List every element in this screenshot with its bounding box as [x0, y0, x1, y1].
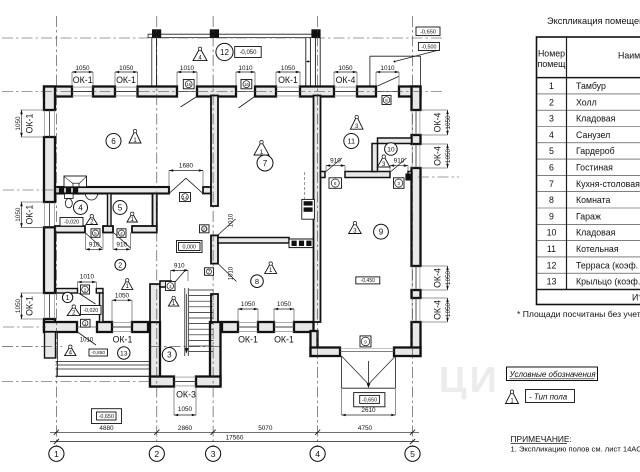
- svg-text:10: 10: [202, 227, 207, 232]
- svg-text:4: 4: [78, 203, 83, 212]
- svg-text:Кладовая: Кладовая: [576, 114, 616, 124]
- svg-text:1010: 1010: [229, 266, 235, 280]
- svg-text:1050: 1050: [338, 65, 353, 72]
- svg-text:2: 2: [154, 449, 159, 459]
- svg-text:Комната: Комната: [576, 195, 611, 205]
- svg-text:Итого: Итого: [632, 293, 640, 303]
- svg-text:16: 16: [244, 82, 249, 87]
- svg-text:13: 13: [547, 277, 557, 287]
- svg-text:Наименование: Наименование: [618, 51, 640, 61]
- svg-text:-0,020: -0,020: [64, 220, 79, 226]
- svg-text:- Тип пола: - Тип пола: [529, 392, 568, 401]
- svg-text:ОК-1: ОК-1: [25, 205, 35, 225]
- svg-text:ОК-4: ОК-4: [433, 113, 443, 133]
- svg-text:-0,450: -0,450: [361, 278, 375, 284]
- svg-text:8: 8: [549, 195, 554, 205]
- svg-text:ОК-4: ОК-4: [433, 146, 443, 166]
- svg-text:2860: 2860: [178, 425, 193, 432]
- svg-text:1010: 1010: [229, 213, 235, 227]
- svg-text:1050: 1050: [15, 116, 22, 131]
- svg-text:10: 10: [547, 228, 557, 238]
- svg-text:910: 910: [394, 157, 405, 164]
- svg-text:1: 1: [549, 81, 554, 91]
- svg-text:ОК-1: ОК-1: [25, 114, 35, 134]
- svg-text:Экспликация помещений: Экспликация помещений: [547, 16, 640, 26]
- svg-text:7: 7: [263, 159, 268, 168]
- svg-text:Санузел: Санузел: [576, 130, 610, 140]
- svg-text:-0,650: -0,650: [420, 29, 436, 35]
- svg-text:1: 1: [66, 295, 70, 302]
- svg-text:3: 3: [549, 114, 554, 124]
- svg-text:Крыльцо (коэф. 0,3): Крыльцо (коэф. 0,3): [576, 277, 640, 287]
- svg-text:ОК-1: ОК-1: [238, 335, 258, 345]
- svg-text:ОК-1: ОК-1: [274, 335, 294, 345]
- svg-text:ОК-1: ОК-1: [116, 75, 136, 85]
- svg-text:ОК-4: ОК-4: [433, 300, 443, 320]
- svg-text:1050: 1050: [445, 115, 452, 130]
- svg-text:4: 4: [315, 449, 320, 459]
- svg-text:ОК-1: ОК-1: [73, 75, 93, 85]
- svg-text:5070: 5070: [258, 425, 273, 432]
- svg-text:Терраса (коэф. 0,3): Терраса (коэф. 0,3): [576, 260, 640, 270]
- svg-text:5: 5: [549, 146, 554, 156]
- svg-text:1050: 1050: [178, 406, 193, 413]
- svg-text:11: 11: [347, 137, 355, 146]
- svg-text:Кухня-столовая: Кухня-столовая: [576, 179, 640, 189]
- svg-text:Гараж: Гараж: [576, 211, 601, 221]
- svg-text:-0,020: -0,020: [83, 308, 98, 314]
- svg-text:910: 910: [330, 157, 341, 164]
- svg-text:1050: 1050: [445, 302, 452, 317]
- svg-text:Тамбур: Тамбур: [576, 81, 606, 91]
- svg-text:1010: 1010: [80, 338, 94, 344]
- svg-text:-0,050: -0,050: [239, 50, 257, 56]
- svg-text:1050: 1050: [241, 301, 256, 308]
- svg-text:6: 6: [549, 162, 554, 172]
- svg-text:Номер: Номер: [538, 49, 565, 59]
- svg-text:12: 12: [220, 48, 229, 57]
- svg-text:-0,650: -0,650: [362, 397, 377, 403]
- svg-text:4750: 4750: [358, 425, 373, 432]
- svg-text:Гостиная: Гостиная: [576, 162, 613, 172]
- svg-text:13: 13: [120, 350, 128, 357]
- svg-text:ОК-1: ОК-1: [278, 75, 298, 85]
- svg-text:4880: 4880: [99, 425, 114, 432]
- svg-text:ПРИМЕЧАНИЕ:: ПРИМЕЧАНИЕ:: [511, 434, 572, 444]
- svg-text:5: 5: [410, 449, 415, 459]
- svg-text:* Площади посчитаны без учета: * Площади посчитаны без учета пон.: [517, 309, 640, 319]
- svg-text:1050: 1050: [445, 270, 452, 285]
- svg-text:1: 1: [54, 449, 59, 459]
- svg-text:-0,850: -0,850: [91, 350, 105, 356]
- svg-text:4: 4: [549, 130, 554, 140]
- svg-text:2: 2: [118, 260, 122, 269]
- svg-text:1010: 1010: [180, 65, 195, 72]
- svg-text:7: 7: [549, 179, 554, 189]
- svg-text:1050: 1050: [15, 207, 22, 222]
- svg-text:ОК-1: ОК-1: [113, 335, 133, 345]
- svg-text:17560: 17560: [226, 435, 244, 442]
- svg-text:15: 15: [186, 82, 191, 87]
- svg-text:1050: 1050: [281, 65, 296, 72]
- svg-text:9: 9: [379, 228, 384, 237]
- svg-text:1. Экспликацию полов см. лист: 1. Экспликацию полов см. лист 14АС.: [511, 445, 640, 454]
- svg-text:910: 910: [116, 241, 127, 248]
- svg-text:2: 2: [549, 97, 554, 107]
- svg-text:1050: 1050: [277, 301, 292, 308]
- svg-text:Гардероб: Гардероб: [576, 146, 615, 156]
- svg-text:1050: 1050: [119, 65, 134, 72]
- svg-text:Котельная: Котельная: [576, 244, 619, 254]
- svg-text:1050: 1050: [75, 65, 90, 72]
- svg-text:2610: 2610: [361, 407, 376, 414]
- svg-text:-0,650: -0,650: [99, 414, 114, 420]
- svg-text:1050: 1050: [445, 148, 452, 163]
- svg-text:3: 3: [211, 449, 216, 459]
- svg-text:11: 11: [547, 244, 556, 254]
- svg-text:14: 14: [183, 195, 188, 200]
- svg-text:1010: 1010: [80, 274, 95, 281]
- svg-text:-0,500: -0,500: [421, 44, 436, 50]
- svg-text:ОК-3: ОК-3: [176, 389, 196, 399]
- svg-text:1010: 1010: [380, 65, 395, 72]
- svg-text:ЦИ: ЦИ: [439, 360, 500, 400]
- svg-text:1010: 1010: [238, 65, 253, 72]
- svg-text:ОК-4: ОК-4: [433, 268, 443, 288]
- svg-text:5: 5: [118, 203, 123, 212]
- svg-text:10: 10: [387, 146, 395, 153]
- svg-text:910: 910: [174, 262, 185, 269]
- svg-text:3: 3: [167, 350, 172, 359]
- svg-text:910: 910: [89, 241, 100, 248]
- svg-text:6: 6: [111, 137, 116, 146]
- svg-text:12: 12: [547, 260, 557, 270]
- svg-text:Кладовая: Кладовая: [576, 228, 616, 238]
- svg-text:9: 9: [549, 211, 554, 221]
- svg-text:1050: 1050: [115, 292, 130, 299]
- svg-text:1050: 1050: [15, 298, 22, 313]
- svg-text:Условные обозначения: Условные обозначения: [509, 370, 597, 379]
- svg-text:Холл: Холл: [576, 97, 597, 107]
- svg-text:1680: 1680: [179, 163, 194, 170]
- svg-text:ОК-1: ОК-1: [25, 296, 35, 316]
- svg-text:ОК-4: ОК-4: [336, 75, 356, 85]
- svg-text:помещ: помещ: [538, 59, 567, 69]
- svg-text:8: 8: [255, 277, 259, 286]
- svg-text:0,000: 0,000: [183, 244, 197, 250]
